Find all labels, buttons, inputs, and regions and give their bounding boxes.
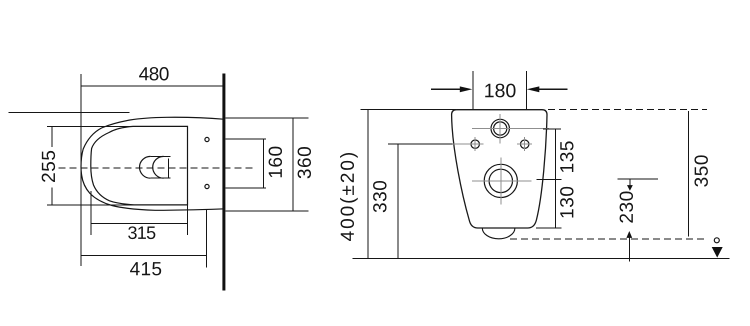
dimension 315 extension right (187, 205, 189, 235)
drain trap outer arc (140, 156, 151, 178)
dimension 230 down arrow (629, 179, 631, 186)
dimension label 360 (298, 147, 311, 178)
dimension label 230 (620, 192, 633, 223)
dimension 360 tick bottom (225, 210, 308, 212)
floor drain symbol circle (714, 238, 719, 243)
dimension label 415 (130, 262, 161, 275)
inlet crosshair horizontal (472, 128, 549, 130)
inner rim contour (91, 126, 188, 204)
dimension 230 top tick (618, 178, 658, 180)
seat mounting hole bottom (205, 184, 209, 188)
dimension label 480 (139, 67, 169, 80)
dimension line 350 (687, 111, 689, 237)
tick at drain level (537, 179, 562, 181)
water inlet circle inner (494, 122, 507, 135)
dimension line 255 upper segment (51, 126, 53, 147)
fixing hole right (521, 140, 529, 148)
dimension label 330 (373, 181, 386, 212)
dimension line 255 lower segment (51, 187, 53, 205)
seat mounting hole top (205, 137, 209, 141)
fixing hole left (471, 140, 479, 148)
dimension label 315 (128, 226, 155, 239)
dimension label 255 (42, 151, 55, 182)
outlet bump (482, 228, 515, 239)
dimension 160 tick top (225, 138, 266, 140)
dimension 180 left arrow (431, 88, 462, 90)
dimension 180 right arrow (537, 88, 568, 90)
fixing hole left crosshair horizontal (453, 143, 484, 145)
outer bowl contour (81, 117, 224, 210)
tick at inlet level (543, 128, 561, 130)
dimension 255 tick top (47, 125, 133, 127)
dimension label 350 (694, 155, 707, 186)
dimension line 480 (81, 85, 222, 87)
tick at body bottom level (536, 227, 561, 229)
dimension line 135/130 (555, 129, 557, 228)
extension line left of 480/415 (80, 74, 82, 266)
dimension 230 up arrow (628, 237, 630, 262)
dimension 315 extension left (90, 191, 92, 235)
drain trap top line (150, 155, 170, 157)
dimension line 360 (292, 118, 294, 211)
fixing hole right crosshair vertical (524, 137, 526, 151)
drain trap inner arc (153, 156, 164, 178)
dimension 415 extension right (206, 210, 208, 268)
drain trap bottom line (150, 177, 170, 179)
dimension 400 top tick (361, 108, 457, 110)
wall (thick vertical line) (222, 74, 225, 291)
fixing hole right crosshair horizontal (517, 143, 532, 145)
drain trap vertical line (167, 159, 169, 179)
dimension label 160 (269, 147, 282, 178)
centerline dashed (59, 167, 257, 169)
reference line top-left (9, 111, 130, 113)
dimension 160 tick bottom (225, 187, 266, 189)
dashed level line bottom (510, 238, 707, 240)
water inlet circle outer (491, 119, 509, 137)
dimension 180 extension right (525, 71, 527, 110)
dimension 180 extension left (472, 71, 474, 110)
dimension label 130 (560, 187, 573, 218)
drain circle inner (489, 169, 512, 192)
dimension line 330 (397, 144, 399, 258)
dimension 360 tick top (225, 117, 308, 119)
inlet crosshair vertical (499, 114, 501, 144)
dashed level line top (548, 109, 707, 111)
dimension line 415 (81, 255, 207, 257)
dimension line 315 (91, 222, 187, 224)
dimension 255 tick bottom (merges with rim bottom) (47, 204, 136, 206)
floor line (353, 257, 730, 259)
dimension line 160 (263, 139, 265, 188)
drain circle outer (484, 164, 517, 197)
dimension label 400pm20 (340, 153, 358, 241)
floor drain symbol triangle (712, 247, 723, 258)
drain crosshair vertical (500, 158, 502, 205)
dimension label 135 (560, 141, 573, 172)
toilet body outline (rear view) (452, 110, 547, 228)
drain crosshair horizontal (472, 180, 532, 182)
dimension 330 top tick (388, 143, 453, 145)
dimension line 400 (367, 109, 369, 258)
fixing hole left crosshair vertical (474, 137, 476, 151)
dimension label 180 (485, 84, 515, 98)
